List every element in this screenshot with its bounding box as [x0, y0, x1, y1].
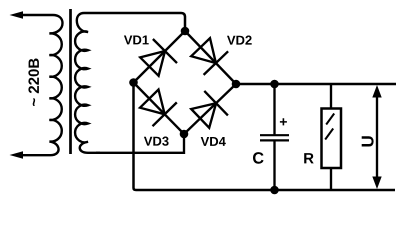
- node capacitor bottom dot: [270, 186, 279, 195]
- capacitor C bottom plate: [260, 139, 289, 141]
- output voltage U arrow (double headed): [376, 92, 378, 182]
- diode VD1 cathode bar: [153, 39, 177, 63]
- resistor R body: [322, 109, 342, 169]
- diode VD1 triangle: [140, 51, 165, 76]
- label C: [253, 152, 264, 164]
- label VD4: [201, 137, 226, 146]
- wire: capacitor top lead: [273, 84, 275, 135]
- wire: plus rail from right node to right edge: [236, 83, 396, 86]
- node right junction dot: [232, 80, 241, 89]
- transformer core: [69, 9, 72, 154]
- wire: secondary top rail to bridge top node: [84, 13, 185, 31]
- label VD1: [124, 36, 149, 45]
- resistor R slash 2: [325, 129, 333, 140]
- node top junction dot: [181, 27, 190, 36]
- arrow left top (AC input): [10, 11, 24, 18]
- diode VD3 cathode bar: [153, 102, 177, 126]
- diode VD4 cathode bar: [204, 91, 228, 116]
- node capacitor top dot: [270, 80, 279, 89]
- diode VD2 cathode bar: [204, 51, 229, 75]
- wire: bridge edge top-right: [185, 31, 236, 84]
- node left junction dot: [129, 78, 138, 87]
- label VD3: [144, 137, 169, 146]
- wire: secondary bottom to bridge bottom node: [96, 134, 184, 153]
- arrow left bottom (AC input): [10, 151, 24, 158]
- wire: minus bus from left node down and along bottom: [134, 83, 396, 191]
- wire: bridge edge left-bottom: [134, 83, 185, 135]
- node bottom junction dot: [180, 130, 189, 139]
- resistor R slash 1: [326, 114, 334, 125]
- wire: resistor top lead: [330, 84, 332, 109]
- wire: bridge edge left-top: [134, 31, 186, 83]
- label VD2: [227, 36, 252, 45]
- capacitor C top plate: [260, 134, 289, 136]
- wire: bridge edge bottom-right: [184, 84, 236, 134]
- label U output voltage: [362, 136, 374, 146]
- diode VD3 triangle: [140, 90, 165, 115]
- wire: capacitor bottom lead: [273, 141, 275, 190]
- diode VD2 triangle: [191, 38, 216, 63]
- transformer T1 primary winding with leads: [22, 15, 63, 155]
- diode VD4 triangle: [191, 103, 216, 128]
- label R: [304, 153, 314, 163]
- transformer T1 secondary winding: [75, 13, 100, 153]
- wire: resistor bottom lead: [330, 168, 332, 190]
- label ~220V primary voltage: [28, 59, 39, 107]
- label + polarity: [280, 118, 287, 125]
